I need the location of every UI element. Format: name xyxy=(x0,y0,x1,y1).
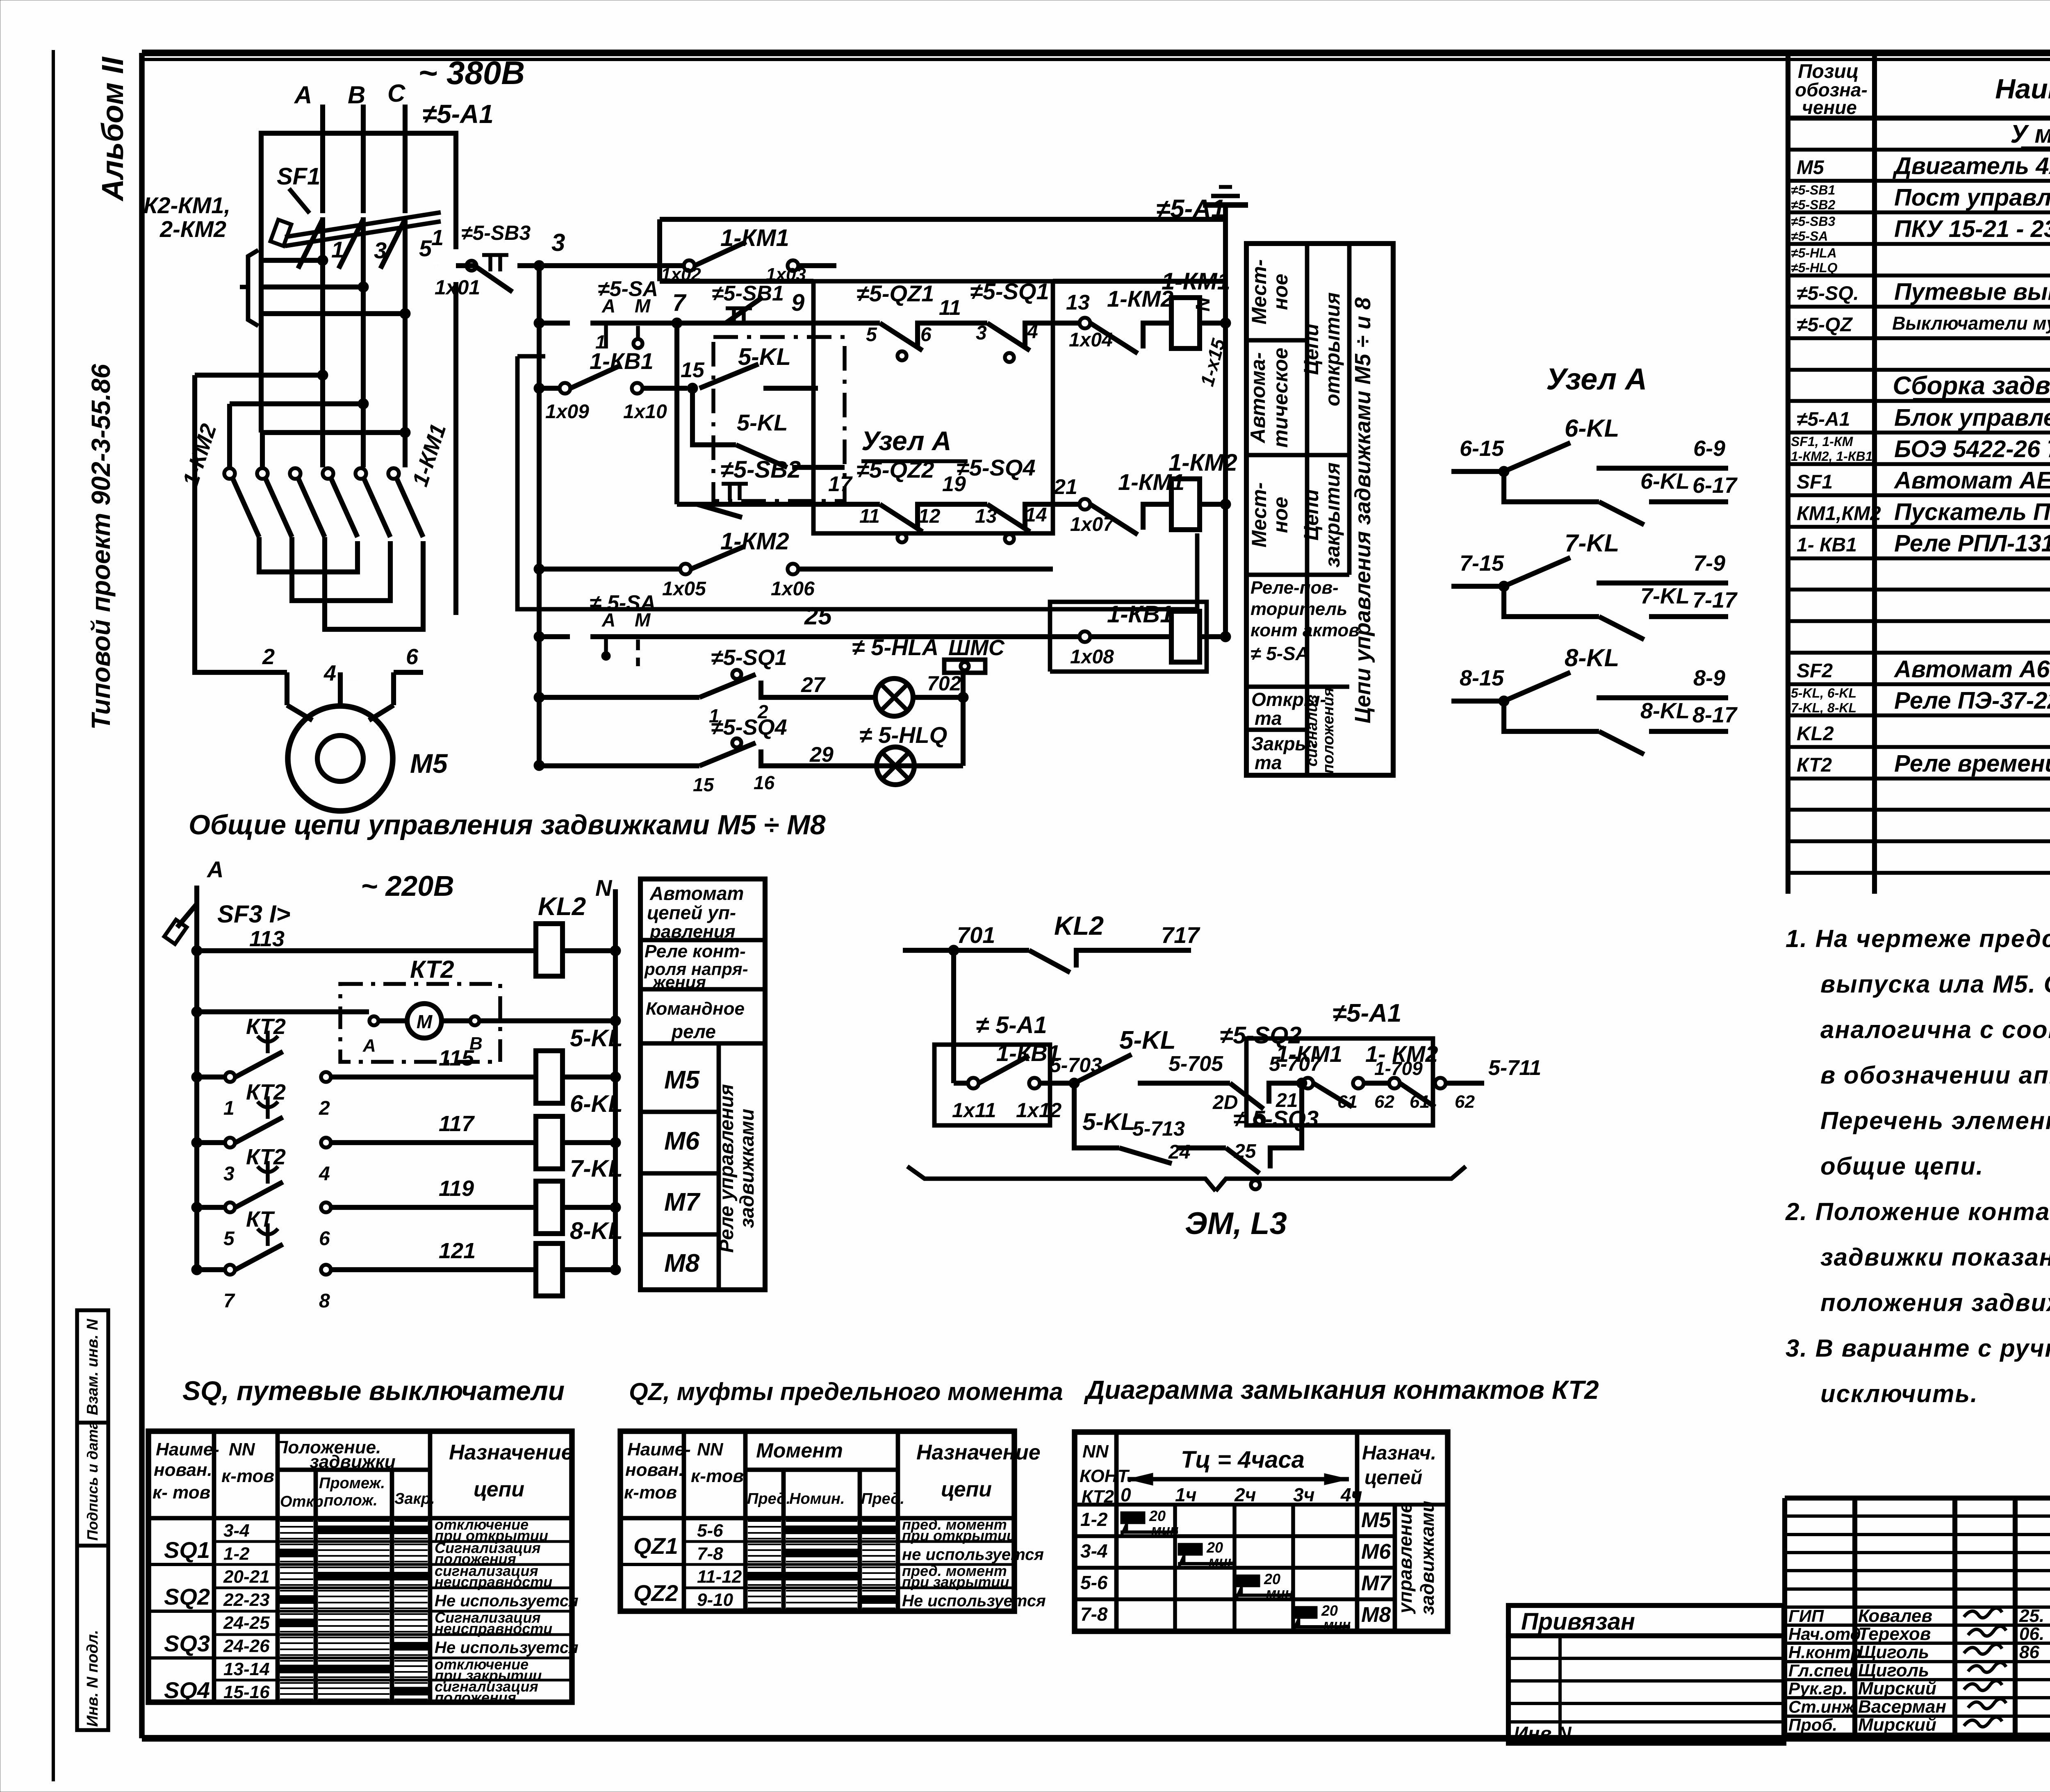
svg-text:закрытия: закрытия xyxy=(1321,462,1344,567)
svg-text:KL2: KL2 xyxy=(1797,723,1834,745)
svg-text:Не используется: Не используется xyxy=(435,1639,579,1657)
svg-text:Узел А: Узел А xyxy=(861,426,952,456)
svg-text:≠5-А1: ≠5-А1 xyxy=(1332,999,1401,1027)
svg-text:1-КМ1: 1-КМ1 xyxy=(720,225,789,251)
svg-text:1-КМ2: 1-КМ2 xyxy=(720,528,789,555)
svg-text:17: 17 xyxy=(828,472,853,496)
svg-text:управление: управление xyxy=(1394,1503,1416,1614)
svg-text:Тц = 4часа: Тц = 4часа xyxy=(1181,1446,1305,1473)
svg-text:торитель: торитель xyxy=(1250,599,1347,619)
svg-text:5-6: 5-6 xyxy=(1080,1572,1108,1593)
svg-text:≠ 5-HLA: ≠ 5-HLA xyxy=(852,634,938,660)
svg-text:7-KL: 7-KL xyxy=(1640,584,1690,608)
svg-text:6-15: 6-15 xyxy=(1460,436,1504,461)
svg-text:702: 702 xyxy=(927,672,961,695)
svg-text:мин: мин xyxy=(1151,1522,1178,1538)
svg-text:А: А xyxy=(601,295,615,317)
svg-text:SF1: SF1 xyxy=(277,163,320,190)
svg-text:Реле-пов-: Реле-пов- xyxy=(1250,578,1339,598)
svg-text:Автомат: Автомат xyxy=(649,883,744,904)
svg-text:119: 119 xyxy=(439,1176,474,1201)
svg-text:Промеж.: Промеж. xyxy=(319,1475,385,1492)
svg-text:1х06: 1х06 xyxy=(771,578,815,600)
svg-text:1-КМ1: 1-КМ1 xyxy=(1162,268,1230,295)
svg-text:та: та xyxy=(1255,708,1282,729)
svg-text:13: 13 xyxy=(1066,291,1090,314)
svg-text:к-тов: к-тов xyxy=(221,1466,274,1486)
svg-text:ЭМ, L3: ЭМ, L3 xyxy=(1185,1206,1287,1241)
svg-text:QZ, муфты предельного момен: QZ, муфты предельного момента xyxy=(629,1378,1063,1405)
svg-text:≠5-SQ.: ≠5-SQ. xyxy=(1797,283,1859,305)
svg-text:М: М xyxy=(635,295,651,317)
svg-text:≠5-SQ4: ≠5-SQ4 xyxy=(711,715,787,740)
svg-text:Перечень элементов приведен: Перечень элементов приведен на один прив… xyxy=(1820,1107,2050,1134)
svg-text:115: 115 xyxy=(439,1046,474,1070)
svg-text:5: 5 xyxy=(223,1228,235,1250)
svg-text:61: 61 xyxy=(1410,1092,1430,1112)
svg-text:В: В xyxy=(348,81,365,109)
svg-text:8-9: 8-9 xyxy=(1693,666,1725,690)
svg-text:равления: равления xyxy=(649,922,736,942)
svg-text:7-15: 7-15 xyxy=(1460,551,1504,576)
svg-text:3-4: 3-4 xyxy=(223,1521,250,1541)
svg-text:исключить.: исключить. xyxy=(1820,1380,1978,1407)
svg-text:задвижки показано в схеме: задвижки показано в схеме для промежуточ… xyxy=(1820,1243,2050,1271)
svg-text:≠5-SB2: ≠5-SB2 xyxy=(1791,197,1835,212)
svg-text:24-25: 24-25 xyxy=(223,1613,270,1633)
svg-text:4: 4 xyxy=(319,1163,330,1185)
svg-text:ное: ное xyxy=(1269,274,1292,310)
svg-text:24-26: 24-26 xyxy=(223,1636,270,1656)
svg-text:9-10: 9-10 xyxy=(697,1590,733,1610)
svg-text:Гл.спец: Гл.спец xyxy=(1788,1661,1854,1680)
svg-text:задвижки: задвижки xyxy=(310,1452,395,1472)
svg-text:1-КВ1: 1-КВ1 xyxy=(590,348,654,374)
svg-text:Путевые выключатели: Путевые выключатели xyxy=(1894,279,2050,305)
svg-text:3: 3 xyxy=(223,1163,235,1185)
svg-text:Общие цепи управления задви: Общие цепи управления задвижками М5 ÷ М8 xyxy=(189,809,826,840)
svg-text:KL2: KL2 xyxy=(1054,911,1104,940)
svg-text:Инв.N: Инв.N xyxy=(1514,1723,1572,1745)
svg-text:Наиме-: Наиме- xyxy=(156,1439,219,1460)
svg-text:задвижками: задвижками xyxy=(1417,1501,1438,1615)
svg-text:15: 15 xyxy=(693,774,715,795)
svg-text:при открытии: при открытии xyxy=(902,1527,1016,1544)
svg-text:≠ 5-SA: ≠ 5-SA xyxy=(1250,643,1309,664)
svg-text:11: 11 xyxy=(939,296,961,320)
svg-text:М7: М7 xyxy=(1361,1571,1392,1595)
svg-text:Цепи управления задвижками М5: Цепи управления задвижками М5 ÷ и 8 xyxy=(1351,297,1375,723)
svg-text:14: 14 xyxy=(1025,504,1047,526)
svg-text:06.: 06. xyxy=(2019,1624,2044,1644)
svg-text:реле: реле xyxy=(671,1021,716,1042)
svg-text:ГИП: ГИП xyxy=(1788,1606,1824,1626)
svg-text:5-705: 5-705 xyxy=(1168,1052,1223,1076)
svg-text:цепей: цепей xyxy=(1364,1467,1422,1489)
svg-text:5-711: 5-711 xyxy=(1488,1056,1541,1080)
svg-text:1-2: 1-2 xyxy=(223,1544,250,1564)
svg-text:27: 27 xyxy=(801,673,826,697)
svg-text:Ст.инж: Ст.инж xyxy=(1788,1697,1855,1716)
svg-text:7: 7 xyxy=(672,289,687,316)
svg-text:к-тов: к-тов xyxy=(691,1466,744,1486)
svg-text:2: 2 xyxy=(262,644,275,669)
svg-text:Мирский: Мирский xyxy=(1858,1715,1936,1735)
svg-text:сигнализ: сигнализ xyxy=(1303,694,1321,766)
svg-text:3: 3 xyxy=(374,237,387,263)
svg-text:та: та xyxy=(1255,752,1282,773)
svg-text:N: N xyxy=(1192,297,1214,312)
svg-text:М8: М8 xyxy=(1361,1603,1391,1627)
svg-text:2-КМ2: 2-КМ2 xyxy=(159,216,226,242)
svg-text:6: 6 xyxy=(920,324,932,346)
svg-text:15: 15 xyxy=(681,358,705,382)
svg-text:25: 25 xyxy=(804,602,832,630)
svg-text:Наиме-: Наиме- xyxy=(627,1439,691,1460)
svg-text:Диаграмма замыкания контактов: Диаграмма замыкания контактов КТ2 xyxy=(1084,1375,1599,1405)
svg-text:КТ2: КТ2 xyxy=(410,956,454,983)
svg-text:1-2: 1-2 xyxy=(1080,1509,1108,1530)
svg-text:1: 1 xyxy=(431,225,444,250)
svg-text:≠5-HLQ: ≠5-HLQ xyxy=(1791,260,1838,275)
svg-text:6-KL: 6-KL xyxy=(570,1091,623,1117)
svg-text:SF1, 1-КМ: SF1, 1-КМ xyxy=(1791,434,1854,449)
svg-text:≠5-QZ2: ≠5-QZ2 xyxy=(856,457,934,483)
svg-text:к-тов: к-тов xyxy=(624,1482,677,1503)
svg-text:SF3 I>: SF3 I> xyxy=(217,900,290,928)
svg-text:20: 20 xyxy=(1206,1539,1223,1556)
svg-text:А: А xyxy=(362,1036,376,1056)
svg-text:QZ1: QZ1 xyxy=(633,1533,678,1559)
svg-text:Рук.гр.: Рук.гр. xyxy=(1788,1679,1847,1698)
svg-text:Мест-: Мест- xyxy=(1248,260,1271,325)
svg-text:Щиголь: Щиголь xyxy=(1858,1642,1929,1662)
svg-text:20-21: 20-21 xyxy=(223,1567,270,1587)
svg-text:аналогична с соответствующим: аналогична с соответствующим изменением … xyxy=(1820,1016,2050,1043)
svg-text:ШМС: ШМС xyxy=(948,635,1005,660)
svg-text:≠5-SB3: ≠5-SB3 xyxy=(461,221,531,244)
svg-text:5-KL: 5-KL xyxy=(738,344,791,370)
svg-text:Автомат А63М, Iр=2А: Автомат А63М, Iр=2А xyxy=(1893,656,2050,683)
svg-text:5: 5 xyxy=(866,324,877,346)
svg-text:6-KL: 6-KL xyxy=(1640,469,1690,494)
svg-text:мин: мин xyxy=(1266,1585,1293,1601)
svg-text:5-6: 5-6 xyxy=(697,1521,723,1541)
svg-text:Узел А: Узел А xyxy=(1546,362,1647,396)
svg-text:Сборка задвижек ШЩ (РТ30-81): Сборка задвижек ШЩ (РТ30-81) xyxy=(1893,372,2050,400)
svg-text:Инв. N подл.: Инв. N подл. xyxy=(84,1630,101,1727)
svg-text:20: 20 xyxy=(1321,1602,1338,1619)
svg-text:положения: положения xyxy=(1320,688,1337,774)
svg-text:Назначение: Назначение xyxy=(449,1441,573,1464)
svg-text:20: 20 xyxy=(1264,1571,1280,1587)
svg-text:≠5-А1: ≠5-А1 xyxy=(1797,408,1850,430)
svg-text:SF2: SF2 xyxy=(1797,660,1833,682)
svg-text:КОНТ.: КОНТ. xyxy=(1080,1466,1133,1486)
svg-text:1х05: 1х05 xyxy=(662,578,706,600)
svg-text:БОЭ 5422-26 74 УХЛ4 , Iр=4,0А: БОЭ 5422-26 74 УХЛ4 , Iр=4,0А xyxy=(1894,436,2050,462)
svg-text:Закр.: Закр. xyxy=(394,1490,435,1507)
svg-text:≠5-SQ4: ≠5-SQ4 xyxy=(957,455,1036,480)
svg-text:Альбом II: Альбом II xyxy=(96,57,130,202)
svg-text:1-КМ2, 1-КВ1: 1-КМ2, 1-КВ1 xyxy=(1791,449,1872,464)
svg-text:Назнач.: Назнач. xyxy=(1362,1442,1436,1464)
svg-text:≠5-HLA: ≠5-HLA xyxy=(1791,246,1837,260)
svg-text:≠ 5-HLQ: ≠ 5-HLQ xyxy=(859,722,947,748)
svg-text:≠5-SQ1: ≠5-SQ1 xyxy=(970,278,1049,304)
svg-text:1. На чертеже представлена сх: 1. На чертеже представлена схема одной з… xyxy=(1786,925,2050,952)
svg-text:Ковалев: Ковалев xyxy=(1858,1606,1932,1626)
svg-text:1-КВ1: 1-КВ1 xyxy=(1107,601,1173,628)
svg-text:жения: жения xyxy=(652,972,706,992)
svg-text:24: 24 xyxy=(1168,1141,1190,1163)
svg-text:≠5-SB2: ≠5-SB2 xyxy=(720,456,801,483)
svg-text:Реле времени ВС-44-2-3-УХЛ4,~: Реле времени ВС-44-2-3-УХЛ4,~220В xyxy=(1894,750,2050,777)
svg-text:717: 717 xyxy=(1161,922,1200,948)
svg-text:нован.: нован. xyxy=(154,1460,212,1480)
svg-text:Привязан: Привязан xyxy=(1521,1608,1635,1635)
svg-text:Наименование: Наименование xyxy=(1995,73,2050,105)
svg-text:701: 701 xyxy=(957,922,995,948)
svg-text:4ч: 4ч xyxy=(1340,1484,1362,1505)
svg-text:9: 9 xyxy=(791,289,804,316)
svg-text:8-KL: 8-KL xyxy=(570,1218,623,1244)
svg-text:4: 4 xyxy=(323,661,336,685)
svg-text:2: 2 xyxy=(319,1098,330,1119)
svg-text:Мест-: Мест- xyxy=(1248,483,1271,548)
svg-text:Реле управления: Реле управления xyxy=(716,1084,738,1252)
svg-text:Выключатели муфты предельного: Выключатели муфты предельного момента xyxy=(1892,313,2050,334)
svg-text:Назначение: Назначение xyxy=(916,1441,1041,1464)
svg-text:Двигатель 4АхС 80А4: Двигатель 4АхС 80А4 xyxy=(1892,153,2050,180)
svg-text:открытия: открытия xyxy=(1321,292,1344,406)
svg-text:Цепи: Цепи xyxy=(1300,489,1323,540)
svg-text:Не используется: Не используется xyxy=(435,1592,579,1610)
svg-text:1х01: 1х01 xyxy=(435,276,480,299)
svg-text:М5: М5 xyxy=(410,748,448,779)
svg-text:к- тов: к- тов xyxy=(153,1482,210,1503)
svg-text:1-КМ1: 1-КМ1 xyxy=(1276,1041,1342,1067)
svg-text:NN: NN xyxy=(229,1439,255,1460)
svg-text:М6: М6 xyxy=(664,1127,700,1155)
svg-text:в обозначении аппаратов и м: в обозначении аппаратов и маркировки цеп… xyxy=(1820,1061,2050,1089)
svg-text:8-KL: 8-KL xyxy=(1640,699,1690,723)
svg-text:неисправности: неисправности xyxy=(435,1620,552,1637)
svg-text:ПКУ 15-21 - 231- 40У3: ПКУ 15-21 - 231- 40У3 xyxy=(1894,216,2050,242)
svg-text:М7: М7 xyxy=(664,1188,701,1216)
svg-text:М5: М5 xyxy=(1797,157,1824,179)
svg-text:≠5-QZ: ≠5-QZ xyxy=(1797,314,1853,336)
svg-text:М: М xyxy=(417,1011,433,1032)
svg-text:21: 21 xyxy=(1053,475,1077,499)
svg-text:SQ3: SQ3 xyxy=(164,1630,210,1656)
svg-text:Щиголь: Щиголь xyxy=(1858,1660,1929,1680)
svg-text:2. Положение контактов путев: 2. Положение контактов путевых выключате… xyxy=(1785,1198,2050,1225)
svg-text:М6: М6 xyxy=(1361,1540,1391,1564)
svg-text:3-4: 3-4 xyxy=(1080,1540,1107,1562)
svg-text:1-709: 1-709 xyxy=(1374,1058,1423,1079)
svg-text:положения задвижки.: положения задвижки. xyxy=(1820,1289,2050,1316)
svg-text:7-9: 7-9 xyxy=(1693,551,1725,576)
svg-text:А: А xyxy=(206,856,223,882)
svg-text:3ч: 3ч xyxy=(1293,1484,1314,1505)
svg-text:1х11: 1х11 xyxy=(952,1099,996,1122)
svg-text:7-17: 7-17 xyxy=(1692,588,1738,613)
svg-text:Номин.: Номин. xyxy=(789,1490,845,1507)
svg-text:задвижками: задвижками xyxy=(736,1109,758,1228)
svg-text:≠5-SA: ≠5-SA xyxy=(1791,229,1828,244)
svg-text:1- КВ1: 1- КВ1 xyxy=(1797,534,1857,556)
svg-text:22-23: 22-23 xyxy=(223,1590,270,1610)
svg-text:NN: NN xyxy=(697,1439,724,1460)
svg-text:1х12: 1х12 xyxy=(1016,1099,1061,1122)
svg-text:Нач.отд.: Нач.отд. xyxy=(1788,1624,1865,1644)
svg-text:М8: М8 xyxy=(664,1249,700,1277)
svg-text:62: 62 xyxy=(1374,1092,1394,1112)
svg-text:5-KL: 5-KL xyxy=(570,1025,623,1052)
svg-text:КМ1,КМ2: КМ1,КМ2 xyxy=(1797,503,1881,524)
svg-text:≠ 5-А1: ≠ 5-А1 xyxy=(976,1012,1047,1038)
svg-text:KL2: KL2 xyxy=(538,893,586,921)
svg-text:общие цепи.: общие цепи. xyxy=(1820,1152,1984,1180)
svg-text:5-KL, 6-KL: 5-KL, 6-KL xyxy=(1791,686,1856,701)
svg-text:Н.контр.: Н.контр. xyxy=(1788,1642,1866,1662)
svg-text:мин: мин xyxy=(1323,1617,1351,1633)
svg-text:Не используется: Не используется xyxy=(902,1592,1046,1610)
svg-text:11: 11 xyxy=(859,505,880,527)
svg-text:Реле РПЛ-1310х4: Реле РПЛ-1310х4 xyxy=(1894,530,2050,557)
svg-text:конт актов: конт актов xyxy=(1250,620,1360,640)
svg-text:16: 16 xyxy=(754,772,775,793)
svg-text:113: 113 xyxy=(249,927,285,951)
svg-text:М5: М5 xyxy=(664,1066,700,1094)
svg-text:SF1: SF1 xyxy=(1797,471,1833,493)
svg-text:Автома-: Автома- xyxy=(1246,352,1269,444)
svg-text:≠5-SB3: ≠5-SB3 xyxy=(1791,214,1835,229)
svg-text:при закрытии: при закрытии xyxy=(902,1573,1009,1590)
svg-text:61: 61 xyxy=(1337,1092,1358,1112)
svg-text:цепи: цепи xyxy=(474,1478,524,1501)
svg-text:1х09: 1х09 xyxy=(545,401,589,423)
svg-text:Блок управления: Блок управления xyxy=(1894,404,2050,431)
svg-text:8: 8 xyxy=(319,1290,330,1312)
svg-text:А: А xyxy=(601,609,615,631)
svg-text:8-15: 8-15 xyxy=(1460,666,1504,690)
svg-text:62: 62 xyxy=(1455,1092,1475,1112)
svg-text:цепи: цепи xyxy=(941,1478,992,1501)
svg-text:SQ4: SQ4 xyxy=(164,1677,210,1703)
svg-text:121: 121 xyxy=(439,1239,476,1263)
svg-text:6-17: 6-17 xyxy=(1692,473,1738,498)
svg-text:NN: NN xyxy=(1082,1441,1109,1462)
svg-text:нован.: нован. xyxy=(625,1460,684,1480)
svg-text:SQ2: SQ2 xyxy=(164,1584,210,1610)
svg-text:1: 1 xyxy=(223,1098,235,1119)
svg-text:≠5-SQ1: ≠5-SQ1 xyxy=(711,645,787,670)
svg-text:К2-КМ1,: К2-КМ1, xyxy=(143,192,230,218)
svg-text:С: С xyxy=(387,80,406,107)
svg-text:выпуска ила М5. Схема задви: выпуска ила М5. Схема задвижек М6, М7, М… xyxy=(1820,970,2050,998)
svg-text:8-17: 8-17 xyxy=(1692,703,1738,727)
svg-text:≠5-QZ1: ≠5-QZ1 xyxy=(856,280,934,306)
svg-text:7-8: 7-8 xyxy=(1080,1603,1108,1625)
svg-text:неисправности: неисправности xyxy=(435,1573,552,1590)
svg-text:1ч: 1ч xyxy=(1175,1484,1196,1505)
svg-text:7-KL, 8-KL: 7-KL, 8-KL xyxy=(1791,701,1856,715)
svg-text:8-KL: 8-KL xyxy=(1565,644,1619,672)
svg-text:Взам. инв. N: Взам. инв. N xyxy=(84,1318,101,1415)
svg-text:~ 220В: ~ 220В xyxy=(361,870,454,902)
svg-text:Момент: Момент xyxy=(756,1439,843,1462)
svg-text:≠5-SB1: ≠5-SB1 xyxy=(1791,182,1835,197)
svg-text:25.: 25. xyxy=(2019,1606,2044,1626)
svg-text:полож.: полож. xyxy=(324,1492,378,1509)
svg-text:Терехов: Терехов xyxy=(1858,1624,1931,1644)
svg-text:У механизма: У механизма xyxy=(2010,120,2050,148)
svg-text:7-KL: 7-KL xyxy=(1565,529,1619,557)
svg-text:1-КМ2: 1-КМ2 xyxy=(1168,449,1237,476)
svg-text:Цепи: Цепи xyxy=(1300,323,1323,375)
svg-text:мин: мин xyxy=(1209,1554,1236,1569)
svg-text:Реле конт-: Реле конт- xyxy=(645,941,746,961)
svg-text:1х02: 1х02 xyxy=(661,264,701,285)
svg-text:Пускатель ПМЛ-150104В: Пускатель ПМЛ-150104В xyxy=(1894,499,2050,525)
svg-text:1: 1 xyxy=(331,237,344,262)
svg-text:Проб.: Проб. xyxy=(1788,1715,1837,1735)
svg-text:5-KL: 5-KL xyxy=(1082,1109,1135,1135)
svg-text:5: 5 xyxy=(419,235,432,261)
svg-text:Командное: Командное xyxy=(646,999,745,1019)
svg-text:М: М xyxy=(635,609,651,631)
svg-text:не используется: не используется xyxy=(902,1546,1044,1564)
svg-text:Подпись и дата: Подпись и дата xyxy=(84,1421,101,1541)
svg-text:20: 20 xyxy=(1149,1507,1166,1524)
svg-text:КТ: КТ xyxy=(246,1207,275,1232)
svg-text:М5: М5 xyxy=(1361,1508,1391,1532)
svg-text:N: N xyxy=(595,875,613,901)
svg-text:29: 29 xyxy=(809,743,834,767)
svg-text:5-KL: 5-KL xyxy=(1119,1026,1176,1054)
svg-text:11-12: 11-12 xyxy=(697,1567,742,1587)
svg-text:чение: чение xyxy=(1802,97,1857,118)
svg-text:Реле ПЭ-37-22У3; ~220В; 2з,2: Реле ПЭ-37-22У3; ~220В; 2з,2р xyxy=(1894,688,2050,714)
svg-text:~ 380В: ~ 380В xyxy=(418,55,525,91)
svg-text:6-9: 6-9 xyxy=(1693,436,1725,461)
svg-text:15-16: 15-16 xyxy=(223,1682,270,1702)
svg-text:3: 3 xyxy=(976,322,987,344)
svg-text:25: 25 xyxy=(1234,1141,1257,1162)
svg-text:7-8: 7-8 xyxy=(697,1544,723,1564)
svg-text:6: 6 xyxy=(406,644,419,669)
svg-text:Мирский: Мирский xyxy=(1858,1678,1936,1699)
svg-text:≠5-А1: ≠5-А1 xyxy=(422,99,494,129)
svg-text:13-14: 13-14 xyxy=(223,1659,270,1679)
svg-text:5-713: 5-713 xyxy=(1132,1117,1185,1140)
svg-text:117: 117 xyxy=(439,1111,475,1136)
svg-text:2ч: 2ч xyxy=(1234,1484,1256,1505)
svg-text:тическое: тическое xyxy=(1269,348,1292,448)
svg-text:цепей уп-: цепей уп- xyxy=(647,902,736,923)
svg-text:QZ2: QZ2 xyxy=(633,1580,678,1606)
svg-text:Откр.: Откр. xyxy=(280,1493,328,1510)
svg-text:КТ2: КТ2 xyxy=(1797,754,1832,776)
svg-text:Автомат АЕ 2016- 10НУ3: Автомат АЕ 2016- 10НУ3 xyxy=(1893,467,2050,494)
svg-text:Васерман: Васерман xyxy=(1858,1696,1946,1717)
svg-text:3: 3 xyxy=(551,229,565,256)
svg-text:А: А xyxy=(294,81,312,109)
svg-text:Типовой проект 902-3-55.86: Типовой проект 902-3-55.86 xyxy=(86,364,116,730)
svg-text:1х10: 1х10 xyxy=(623,401,667,423)
